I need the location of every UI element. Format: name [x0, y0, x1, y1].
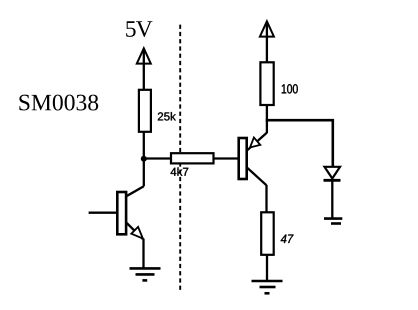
label 4k7	[171, 167, 189, 175]
label SM0038	[19, 95, 98, 111]
power arrow (left 5V)	[137, 48, 151, 90]
wire resistor100 to Q2 emitter node	[266, 105, 268, 133]
power arrow (right supply)	[260, 21, 274, 63]
ground (under diode)	[324, 219, 342, 224]
wire 4k7 to Q2 base	[214, 157, 239, 159]
wire resistor25k to node	[143, 132, 145, 161]
resistor 25k	[139, 90, 151, 132]
transistor Q1 (left NPN)	[89, 159, 144, 268]
dashed boundary line	[179, 25, 181, 291]
diode D1 (LED)	[324, 167, 341, 219]
label 100	[282, 84, 298, 93]
label 25k	[158, 112, 176, 120]
transistor Q2 (right PNP)	[239, 133, 267, 213]
resistor 47	[261, 212, 274, 255]
resistor 4k7	[171, 153, 214, 163]
resistor 100	[260, 62, 273, 105]
label 5V supply	[126, 21, 152, 37]
ground (left, under Q1 emitter)	[130, 268, 161, 280]
wire resistor47 to ground	[266, 255, 268, 281]
ground (under resistor 47)	[252, 281, 283, 293]
wire LED branch down	[331, 119, 334, 167]
node junction dot	[141, 156, 147, 162]
label 47	[281, 235, 294, 243]
wire node to 4k7	[144, 157, 172, 159]
wire emitter node to LED branch	[266, 119, 334, 122]
